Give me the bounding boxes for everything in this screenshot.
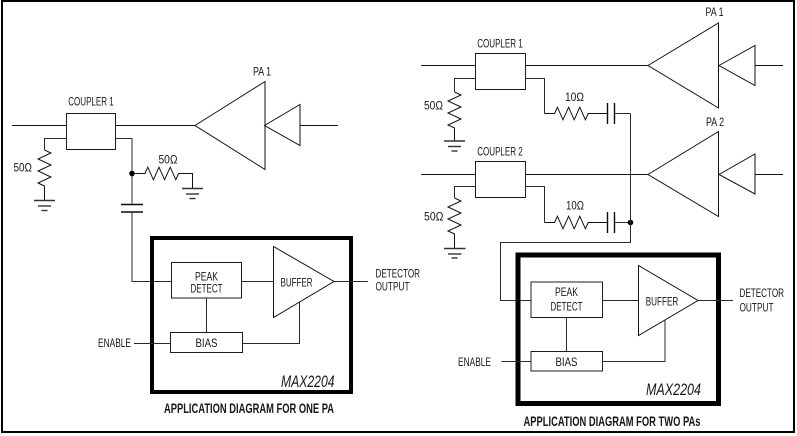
wire: coupler 1 to PA 1 [526, 65, 649, 67]
wire: cap 1 to summing bus [615, 113, 631, 115]
driver stage triangle PA2 [719, 154, 755, 194]
svg-text:DETECTOR: DETECTOR [740, 286, 785, 300]
wire: PA 1 input lead [300, 125, 338, 127]
svg-text:50Ω: 50Ω [159, 153, 178, 167]
svg-text:OUTPUT: OUTPUT [376, 280, 410, 294]
svg-text:ENABLE: ENABLE [98, 336, 131, 350]
coupler C1 (left diagram) [67, 114, 116, 150]
wire: peak detect to bias [206, 298, 208, 333]
block PEAK DETECT [172, 263, 242, 299]
svg-text:DETECT: DETECT [551, 299, 583, 313]
svg-text:PA 1: PA 1 [253, 65, 271, 79]
svg-text:BIAS: BIAS [556, 355, 578, 369]
svg-text:APPLICATION DIAGRAM FOR ONE PA: APPLICATION DIAGRAM FOR ONE PA [164, 400, 334, 416]
wire: enable input (right) [502, 361, 532, 363]
resistor 50Ω (termination coupler 1) [448, 92, 461, 141]
capacitor (sum network 1) [608, 103, 615, 124]
resistor 50Ω (termination coupler 2) [448, 198, 461, 249]
wire: coupled port right tap [116, 139, 133, 204]
block BIAS (right) [531, 352, 603, 372]
wire: buffer output [334, 281, 368, 283]
svg-text:MAX2204: MAX2204 [281, 372, 335, 391]
svg-text:OUTPUT: OUTPUT [740, 301, 774, 315]
wire: PA 2 input lead [755, 174, 783, 176]
wire: buffer output (right) [698, 300, 733, 302]
wire: bias to buffer [243, 302, 300, 344]
wire: input to coupler 2 [421, 174, 476, 176]
svg-text:DETECT: DETECT [191, 281, 223, 295]
wire: capacitor to peak detect input [132, 213, 172, 282]
ground (below left 50Ω) [34, 201, 55, 211]
op-amp BUFFER (left) [274, 247, 335, 318]
svg-text:10Ω: 10Ω [565, 90, 584, 104]
wire: summing bus to peak detect input [501, 114, 631, 301]
power amplifier PA 2 (right) [648, 132, 719, 217]
resistor 50Ω (termination, left) [38, 150, 51, 200]
wire: input to coupler 1 [12, 125, 67, 127]
svg-text:50Ω: 50Ω [424, 99, 443, 113]
op-amp BUFFER (right) [639, 266, 699, 336]
IC outline MAX2204 (left) [152, 238, 351, 392]
node: summing junction dot [628, 220, 634, 226]
capacitor (sum network 2) [608, 212, 615, 233]
svg-text:COUPLER 2: COUPLER 2 [477, 145, 523, 159]
coupler C1 (right diagram) [476, 54, 526, 90]
wire: coupler 1 to PA 1 [116, 125, 196, 127]
capacitor (coupling cap, left) [121, 205, 143, 213]
driver stage triangle [265, 105, 301, 146]
node junction dot [129, 171, 135, 177]
wire: coupled port left tap [455, 79, 476, 93]
wire: bias to buffer (right) [603, 320, 666, 362]
svg-text:PA 1: PA 1 [706, 5, 724, 19]
svg-text:ENABLE: ENABLE [458, 355, 491, 369]
svg-text:DETECTOR: DETECTOR [376, 267, 421, 281]
svg-text:50Ω: 50Ω [14, 161, 33, 175]
wire: enable input [134, 343, 171, 345]
block BIAS [171, 333, 243, 353]
wire: coupler 2 to PA 2 [526, 174, 649, 176]
svg-text:PA 2: PA 2 [706, 115, 724, 129]
svg-text:PEAK: PEAK [555, 285, 579, 299]
svg-text:COUPLER 1: COUPLER 1 [68, 95, 114, 109]
wire: coupled port left tap [45, 139, 67, 151]
wire: cap 2 to summing node [615, 222, 631, 224]
wire: coupled port right tap 2 [526, 187, 545, 223]
svg-text:BIAS: BIAS [196, 336, 218, 350]
ground (coupler 1 termination) [444, 141, 465, 151]
svg-text:BUFFER: BUFFER [646, 295, 679, 309]
svg-text:50Ω: 50Ω [424, 210, 444, 224]
coupler C2 (right diagram) [476, 162, 526, 198]
wire: peak detect to bias (right) [566, 318, 568, 352]
power amplifier PA 1 (right) [648, 23, 719, 108]
wire: input to coupler 1 [421, 65, 476, 67]
wire: coupled port left tap 2 [455, 187, 476, 199]
IC outline MAX2204 (right) [518, 255, 719, 404]
block PEAK DETECT (right) [531, 282, 603, 318]
wire: peak detect to buffer [242, 281, 274, 283]
power amplifier PA 1 (left) [195, 82, 265, 170]
resistor 50Ω (horizontal) with lead to ground [134, 167, 193, 188]
svg-text:MAX2204: MAX2204 [646, 380, 701, 399]
wire: coupled port right tap [526, 79, 545, 114]
driver stage triangle PA1 [719, 46, 755, 86]
svg-text:COUPLER 1: COUPLER 1 [477, 37, 523, 51]
resistor 10Ω (sum network 1) [545, 107, 608, 120]
wire: PA 1 input lead [755, 65, 783, 67]
svg-text:10Ω: 10Ω [566, 199, 584, 213]
ground (below horizontal 50Ω) [182, 189, 203, 199]
resistor 10Ω (sum network 2) [545, 216, 608, 229]
svg-text:APPLICATION DIAGRAM FOR TWO PA: APPLICATION DIAGRAM FOR TWO PAs [524, 413, 701, 429]
svg-text:BUFFER: BUFFER [281, 275, 313, 289]
ground (coupler 2 termination) [444, 249, 466, 259]
wire: peak detect to buffer (right) [603, 300, 639, 302]
